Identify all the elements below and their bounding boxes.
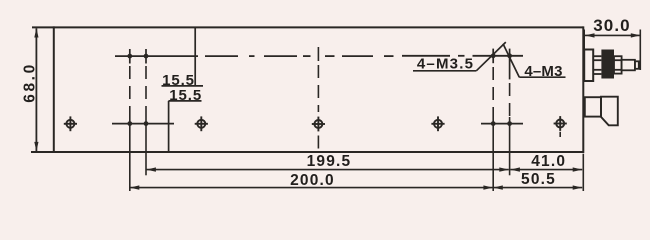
crosshair target marker H3 (center) (312, 117, 325, 132)
svg-text:30.0: 30.0 (593, 16, 631, 35)
svg-text:15.5: 15.5 (169, 87, 202, 104)
connector mounting flange (584, 50, 593, 82)
dimension 15.5 lower: leader shelf and extension line (169, 101, 202, 152)
body top edge (32, 26, 583, 28)
bottom mounting hole A1 (127, 121, 132, 126)
svg-text:50.5: 50.5 (521, 171, 556, 188)
body right edge (582, 26, 584, 153)
dimension 41.0 line with arrows (510, 167, 582, 171)
short axis dash below marker H5 (559, 132, 561, 137)
bottom mounting hole B2 (507, 121, 512, 126)
label 4-M3 leader (503, 44, 566, 77)
bottom mounting hole A2 (144, 121, 149, 126)
dimension 15.5 upper: extension line and leader shelf (162, 28, 204, 86)
top mounting hole B1 (right pair, 4-M3.5) (491, 49, 496, 64)
dimension 200.0 line with arrows (130, 185, 493, 189)
crosshair target marker H4 (431, 116, 444, 131)
connector plug barrel (622, 60, 635, 71)
top mounting hole A2 (left pair) (144, 49, 149, 64)
extension line from body right edge to dimension rows (582, 154, 584, 191)
vertical centerline of center hole H3 (dash-dot) (317, 47, 319, 149)
horizontal centerline (dash-dot) (115, 55, 523, 57)
connector hex nut (solid) (601, 50, 614, 79)
cable bracket block (585, 97, 601, 116)
cable bracket chamfered housing (601, 97, 618, 126)
label 4-M3.5 leader (413, 42, 506, 71)
svg-text:41.0: 41.0 (531, 153, 566, 170)
extension lines from holes to dimension rows (130, 117, 510, 191)
svg-text:199.5: 199.5 (307, 153, 352, 170)
body bottom edge (31, 151, 583, 153)
bottom hole center cross line (right pair) (481, 123, 523, 125)
svg-text:4–M3.5: 4–M3.5 (417, 55, 474, 72)
connector collar (614, 56, 622, 73)
crosshair target marker H2 (195, 116, 208, 131)
dimension 50.5 line with arrows (493, 185, 582, 189)
svg-text:4–M3: 4–M3 (524, 63, 562, 80)
bottom mounting hole B1 (491, 121, 496, 126)
svg-text:200.0: 200.0 (290, 172, 335, 189)
crosshair target marker H5 (554, 116, 567, 131)
top mounting hole B2 (right pair, 4-M3) (507, 49, 512, 80)
hidden (dashed) hole axis lines (130, 66, 510, 117)
crosshair target marker H1 (64, 116, 77, 131)
body left edge (53, 26, 55, 153)
connector threaded neck (593, 56, 601, 74)
svg-text:68.0: 68.0 (21, 62, 38, 103)
top mounting hole A1 (left pair) (127, 49, 132, 64)
dimension 30.0 line, arrows and extension lines (584, 30, 640, 71)
connector plug tip (635, 61, 639, 69)
dimension 68.0 line with arrows (34, 28, 38, 151)
dimension 199.5 line with arrows (146, 167, 508, 171)
bottom hole center cross line (left pair) (112, 123, 174, 125)
